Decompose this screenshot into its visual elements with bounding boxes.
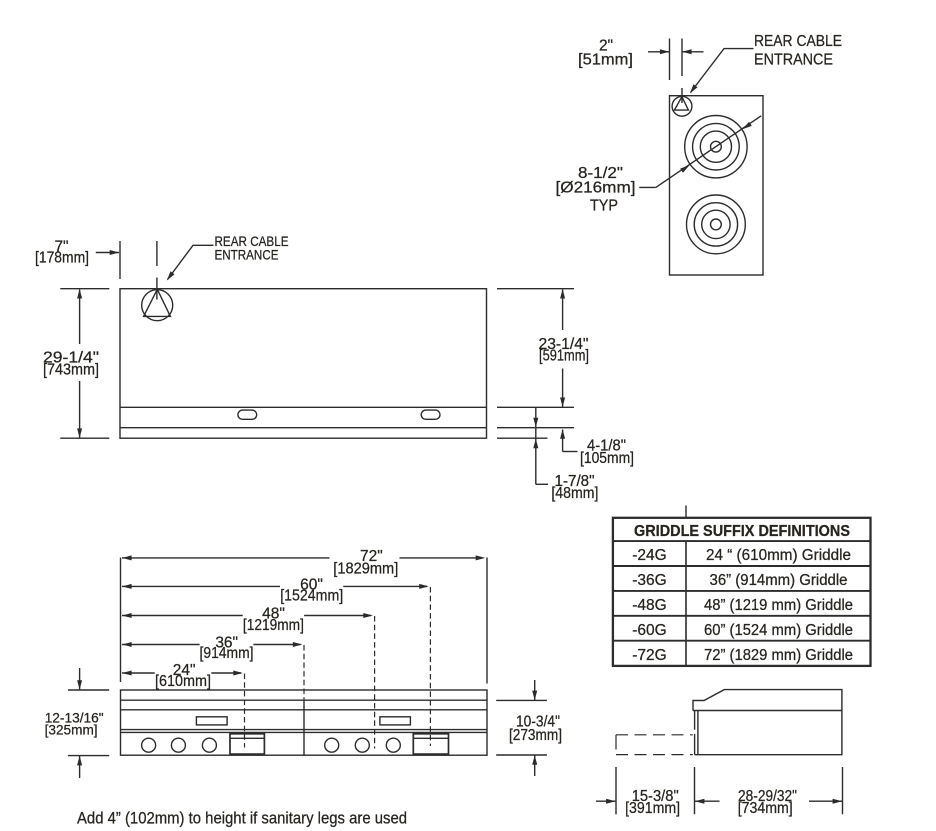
front view plate edge line (121, 699, 488, 701)
grease drawer left (230, 734, 264, 754)
side view dimension tick middle (694, 767, 696, 814)
svg-text:[734mm]: [734mm] (738, 800, 793, 817)
svg-text:[743mm]: [743mm] (43, 362, 99, 379)
svg-text:ENTRANCE: ENTRANCE (754, 52, 833, 69)
table header bottom rule (613, 540, 871, 542)
svg-text:ENTRANCE: ENTRANCE (215, 246, 279, 262)
4-1/8 dimension leader (560, 429, 577, 451)
12-13/16 dimension ticks (68, 690, 109, 756)
29-1/4 dimension line (77, 289, 82, 438)
table column divider (685, 541, 687, 666)
side/front upper view body (120, 289, 487, 439)
svg-text:[914mm]: [914mm] (200, 645, 254, 662)
upper view trim line B (120, 427, 487, 429)
dashed griddle plate left edge (615, 735, 617, 750)
side view dimension tick left (615, 767, 617, 814)
knob 2 (171, 738, 185, 752)
knob 1 (142, 738, 156, 752)
front view center divider (303, 700, 305, 755)
svg-text:-48G: -48G (632, 597, 666, 614)
top view cable entrance symbol (672, 96, 692, 116)
svg-text:[610mm]: [610mm] (155, 673, 211, 690)
nameplate right (380, 717, 411, 725)
svg-text:[1219mm]: [1219mm] (243, 617, 304, 634)
side view outline (693, 690, 842, 755)
svg-text:-36G: -36G (632, 572, 666, 589)
12-13/16 dimension arrows (77, 668, 82, 778)
svg-text:[178mm]: [178mm] (35, 249, 89, 266)
svg-text:24 “ (610mm) Griddle: 24 “ (610mm) Griddle (706, 547, 851, 564)
front view panel top line (121, 729, 488, 731)
svg-text:60” (1524 mm) Griddle: 60” (1524 mm) Griddle (704, 622, 853, 639)
72in dimension line (122, 555, 485, 560)
2in dimension extension lines (669, 39, 671, 81)
front view body outline (121, 690, 488, 755)
28-29/32 right arrow (809, 799, 842, 804)
knob 4 (325, 738, 339, 752)
60in dimension line (122, 584, 429, 589)
svg-text:TYP: TYP (590, 197, 618, 214)
upper view trim line A (120, 406, 487, 408)
36in dimension line (122, 642, 302, 647)
knob 3 (202, 738, 216, 752)
svg-text:[Ø216mm]: [Ø216mm] (556, 179, 636, 196)
side view inner wall line (697, 711, 699, 755)
24in dimension line (122, 671, 243, 676)
svg-text:[1524mm]: [1524mm] (280, 588, 343, 605)
table row rule 4 (613, 640, 871, 642)
upper view cable entrance symbol (142, 289, 173, 320)
svg-text:GRIDDLE SUFFIX DEFINITIONS: GRIDDLE SUFFIX DEFINITIONS (634, 523, 850, 540)
60in dashed extension (429, 587, 431, 746)
svg-text:[325mm]: [325mm] (45, 722, 98, 738)
top view body outline (670, 96, 764, 275)
right extension line (486, 558, 488, 684)
7in dimension arrow (96, 250, 120, 255)
table row rule 1 (613, 565, 871, 567)
23-1/4 dimension ticks (497, 289, 574, 408)
svg-text:-72G: -72G (632, 647, 666, 664)
cable entrance center line (156, 241, 158, 300)
48in dimension line (122, 613, 373, 618)
dashed griddle plate bottom (616, 754, 693, 756)
label rear cable entrance top view (754, 33, 842, 68)
front view panel line (121, 731, 488, 733)
23-1/4 dimension line (560, 289, 565, 407)
28-29/32 left arrow (695, 799, 720, 804)
burner diameter leader (639, 116, 761, 188)
left extension line (120, 558, 122, 683)
label 12-13/16 (45, 709, 104, 737)
29-1/4 dimension ticks (60, 289, 109, 439)
side view underside line (693, 710, 842, 712)
svg-text:[273mm]: [273mm] (509, 727, 562, 744)
10-3/4 dimension arrows (532, 680, 537, 776)
upper view slot right (421, 410, 440, 419)
svg-text:[591mm]: [591mm] (539, 348, 589, 365)
24in dashed extension (244, 674, 246, 748)
svg-text:Add 4” (102mm) to height if sa: Add 4” (102mm) to height if sanitary leg… (77, 809, 407, 827)
side view outer wall line (694, 711, 696, 730)
grease drawer right (413, 734, 448, 754)
table stub line above (685, 506, 687, 518)
1-7/8 dimension leader (533, 408, 548, 485)
svg-text:48” (1219 mm) Griddle: 48” (1219 mm) Griddle (704, 597, 853, 614)
svg-text:36” (914mm) Griddle: 36” (914mm) Griddle (710, 572, 848, 589)
table row rule 3 (613, 615, 871, 617)
svg-text:[391mm]: [391mm] (625, 800, 680, 817)
table outer border (613, 518, 871, 666)
dashed griddle plate top (616, 734, 693, 736)
svg-text:-24G: -24G (632, 547, 666, 564)
knob 5 (355, 738, 369, 752)
7in left extension line (119, 241, 121, 279)
rear cable entrance leader (upper view) (165, 245, 214, 282)
15-3/8 outside arrow (596, 799, 616, 804)
upper view slot left (238, 410, 257, 419)
nameplate left (196, 717, 227, 725)
svg-text:-60G: -60G (632, 622, 666, 639)
rear cable entrance leader (top view) (688, 49, 754, 95)
48in dashed extension (374, 616, 376, 749)
side view dimension tick right (842, 767, 844, 814)
2in dimension arrows (648, 49, 704, 54)
svg-text:REAR CABLE: REAR CABLE (754, 33, 842, 50)
knob 6 (386, 738, 400, 752)
top burner element (685, 116, 747, 178)
bottom burner element (687, 195, 746, 254)
bottom tick (497, 437, 548, 439)
trim line B tick (497, 427, 574, 429)
36in dashed extension (303, 645, 305, 700)
svg-text:72” (1829 mm) Griddle: 72” (1829 mm) Griddle (704, 647, 853, 664)
front view band line (121, 709, 488, 711)
10-3/4 dimension ticks (496, 700, 547, 755)
svg-text:[1829mm]: [1829mm] (333, 561, 398, 578)
svg-text:[51mm]: [51mm] (578, 52, 633, 69)
svg-text:[48mm]: [48mm] (551, 485, 598, 502)
label rear cable entrance upper view (215, 233, 289, 262)
table row rule 2 (613, 590, 871, 592)
svg-text:[105mm]: [105mm] (580, 450, 634, 467)
